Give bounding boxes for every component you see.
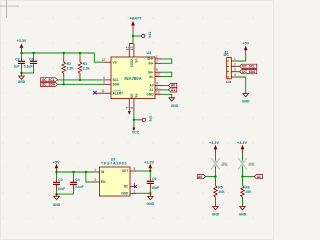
svg-text:C3: C3: [58, 178, 62, 182]
svg-text:+3.3V: +3.3V: [209, 141, 219, 145]
svg-text:10uF: 10uF: [151, 186, 159, 190]
svg-text:SH+: SH+: [147, 57, 153, 61]
wire J1 pin3 to label: [237, 71, 240, 73]
svg-text:2: 2: [156, 59, 158, 63]
svg-text:A1: A1: [149, 88, 153, 92]
jumper JP2 (DNP): [238, 158, 254, 170]
power +3.3V (JP1): [209, 141, 219, 153]
svg-text:GND: GND: [18, 80, 26, 84]
junction: [20, 72, 22, 74]
svg-text:4: 4: [234, 73, 236, 77]
svg-text:2.2K: 2.2K: [67, 66, 75, 70]
svg-text:INA780A: INA780A: [124, 76, 141, 81]
power VCC (down): [132, 120, 140, 135]
svg-text:5: 5: [103, 80, 105, 84]
svg-text:I2C_SDA: I2C_SDA: [42, 83, 56, 87]
junction: [63, 52, 65, 54]
svg-text:R6: R6: [245, 186, 249, 190]
capacitor C5 0.1uF: [24, 53, 37, 73]
wire VBUS: [132, 31, 134, 36]
svg-text:3: 3: [234, 68, 236, 72]
no-connect X on ALERT: [93, 91, 97, 95]
svg-text:I2C_SDA: I2C_SDA: [242, 70, 256, 74]
pin 4 J1: [231, 73, 236, 77]
capacitor C3 10uF: [53, 172, 65, 194]
pin 4 NC (U2, no-connect): [124, 183, 136, 189]
svg-text:VCC: VCC: [132, 131, 140, 135]
svg-text:SCL: SCL: [113, 78, 119, 82]
svg-text:VS: VS: [113, 60, 117, 64]
svg-text:JP1: JP1: [222, 162, 228, 166]
wire JP1 bottom: [215, 167, 217, 177]
svg-text:+3.3V: +3.3V: [144, 160, 154, 164]
pin 5 SDA (left): [103, 80, 120, 86]
ground GND (R6): [239, 207, 247, 217]
wire U2 GND to C6: [136, 192, 150, 194]
wire JP2 bottom: [242, 167, 244, 177]
wire J1 pin1 to +5V: [237, 55, 246, 61]
junction: [85, 171, 87, 173]
pin 1 SH+ (right): [147, 55, 161, 61]
svg-text:TP5: TP5: [148, 116, 152, 122]
wire pin13 to ground: [162, 94, 172, 98]
wire JP2 top: [242, 153, 244, 161]
pin 5 OUT (U2): [122, 167, 136, 173]
pin 3 J1: [231, 68, 236, 72]
global label A0: [169, 83, 177, 87]
junction: [79, 79, 81, 81]
svg-text:10K: 10K: [245, 190, 252, 194]
no-connect X on U2 pin 4: [134, 185, 137, 188]
svg-text:U5: U5: [147, 51, 152, 55]
junction: [149, 192, 151, 194]
svg-text:C6: C6: [152, 177, 156, 181]
pin 2 GND (U2): [121, 189, 136, 195]
wire SCL: [58, 79, 105, 81]
global label A0 (branch): [197, 175, 205, 179]
svg-text:10K: 10K: [218, 190, 225, 194]
svg-text:ALERT: ALERT: [113, 91, 124, 95]
ground GND (J1): [242, 94, 250, 104]
svg-text:GND: GND: [171, 104, 179, 108]
wire down to U5 top pins: [129, 36, 133, 44]
power +5V (J1): [242, 42, 249, 56]
junction: [79, 52, 81, 54]
pin 2 IN+ (right): [148, 59, 161, 65]
svg-text:GND: GND: [212, 212, 220, 216]
power +3.3V (top-left): [17, 39, 27, 53]
wire to TP5: [134, 119, 142, 121]
svg-text:2: 2: [234, 62, 236, 66]
svg-text:A0: A0: [171, 84, 175, 88]
svg-text:C4: C4: [75, 178, 79, 182]
pin 4 A0 (right): [149, 82, 161, 88]
wire to A0 label: [206, 176, 216, 178]
junction: [32, 52, 34, 54]
svg-text:EN: EN: [101, 180, 106, 184]
junction: [149, 170, 151, 172]
svg-text:A1: A1: [257, 175, 261, 179]
svg-text:GND: GND: [53, 203, 61, 207]
svg-text:2: 2: [134, 189, 136, 193]
global label A1 (branch): [254, 175, 262, 179]
pin 15 VS (top): [130, 44, 138, 63]
svg-text:SH-: SH-: [148, 70, 154, 74]
svg-text:A1: A1: [171, 88, 175, 92]
svg-text:10uF: 10uF: [57, 187, 65, 191]
ground GND (right of U5): [169, 98, 179, 108]
pin 13 GND (right): [146, 90, 161, 96]
pin 10 IN- (right): [149, 73, 161, 79]
global label I2C_SCL (right): [240, 64, 257, 68]
pin 16 VBUS (top): [125, 44, 133, 68]
svg-text:1: 1: [234, 57, 236, 61]
svg-text:10: 10: [156, 73, 160, 77]
junction: [55, 193, 57, 195]
junction: [241, 175, 243, 177]
capacitor C2 1uF: [13, 53, 25, 73]
svg-text:TPS7A2033: TPS7A2033: [101, 161, 127, 166]
resistor R2 2.2K: [62, 53, 74, 84]
ground GND (below C6): [147, 193, 155, 206]
pin 1 J1: [231, 57, 236, 61]
svg-text:4: 4: [156, 82, 158, 86]
svg-text:1uF: 1uF: [13, 65, 19, 69]
svg-text:2.2K: 2.2K: [83, 66, 91, 70]
svg-text:3: 3: [94, 178, 96, 182]
ground GND (R5): [212, 207, 220, 217]
pin 7 GND (bottom): [125, 94, 133, 115]
svg-text:13: 13: [156, 90, 160, 94]
svg-text:PA: PA: [134, 94, 138, 99]
capacitor C6 10uF: [147, 171, 159, 193]
wire bracket pins 9-10: [162, 72, 172, 76]
svg-text:VS: VS: [134, 59, 138, 63]
resistor R6 10K: [241, 177, 252, 207]
svg-text:0.1uF: 0.1uF: [75, 185, 84, 189]
wire to A1 label: [162, 89, 169, 91]
wire JP1 top: [215, 153, 217, 161]
power +BATT: [129, 16, 142, 31]
wire to A1 label: [243, 176, 255, 178]
jumper JP1 (DNP): [211, 158, 227, 170]
junction: [72, 171, 74, 173]
svg-text:1: 1: [156, 55, 158, 59]
wire to A0 label: [162, 85, 169, 87]
wire gnd rail caps: [22, 72, 34, 74]
wire J1 pin4 to ground: [237, 77, 246, 94]
wire to TP4: [133, 35, 141, 37]
wire OUT to +3.3V: [136, 170, 150, 172]
ground GND (below C3): [53, 194, 61, 207]
svg-text:11: 11: [101, 89, 105, 93]
svg-text:+BATT: +BATT: [129, 16, 142, 20]
svg-text:16: 16: [125, 46, 129, 50]
svg-text:R5: R5: [218, 186, 222, 190]
svg-text:GND: GND: [242, 99, 250, 103]
pin 3 A1 (right): [149, 86, 161, 92]
ground GND (below C2): [18, 73, 26, 84]
wire pin8 down: [133, 110, 135, 120]
capacitor C4 0.1uF: [70, 172, 84, 194]
connector J1 I2C: [224, 50, 232, 84]
svg-text:I2C_SCL: I2C_SCL: [242, 65, 255, 69]
global label I2C_SDA (right): [240, 70, 257, 74]
svg-text:GND: GND: [239, 212, 247, 216]
svg-text:15: 15: [130, 46, 134, 50]
wire bracket pins 1-2: [162, 59, 172, 63]
pin 8 PAD (bottom): [130, 94, 138, 110]
wire J1 pin2 to label: [237, 65, 240, 67]
junction: [63, 83, 65, 85]
svg-text:5: 5: [134, 167, 136, 171]
svg-text:1: 1: [94, 168, 96, 172]
crosshair origin marker: [0, 0, 19, 18]
svg-text:7: 7: [125, 107, 129, 109]
global label I2C_SDA (left): [41, 83, 58, 87]
svg-text:IN+: IN+: [148, 62, 153, 66]
IC U2 TPS7A2033 body: [100, 157, 131, 196]
pin 1 IN (U2): [94, 168, 105, 174]
wire SDA: [58, 83, 105, 85]
junction: [20, 52, 22, 54]
svg-text:12: 12: [101, 58, 105, 62]
svg-text:SDA: SDA: [113, 83, 120, 87]
pin 11 ALERT (left, no-connect): [96, 89, 124, 95]
junction: [55, 171, 57, 173]
IC U5 INA780A body: [111, 51, 155, 98]
wire +3.3V rail: [22, 53, 105, 62]
svg-text:GN: GN: [130, 94, 134, 99]
svg-text:R3: R3: [83, 62, 87, 66]
svg-text:+5V: +5V: [242, 42, 249, 46]
global label I2C_SCL (left): [41, 78, 58, 82]
svg-text:OUT: OUT: [122, 169, 129, 173]
wire +5V rail: [57, 171, 94, 173]
test point TP4: [142, 32, 152, 38]
svg-text:I2C_SCL: I2C_SCL: [42, 78, 55, 82]
svg-text:GND: GND: [146, 93, 154, 97]
svg-text:8: 8: [130, 107, 134, 109]
global label A1: [169, 88, 177, 92]
svg-text:C2: C2: [15, 58, 19, 62]
svg-text:R2: R2: [67, 62, 71, 66]
svg-text:+5V: +5V: [53, 160, 60, 164]
svg-text:A0: A0: [198, 175, 202, 179]
junction: [214, 175, 216, 177]
svg-text:GND: GND: [121, 192, 129, 196]
pin 2 J1: [231, 62, 236, 66]
svg-text:IN-: IN-: [149, 75, 153, 79]
power +3.3V (JP2): [237, 141, 247, 153]
svg-text:JP2: JP2: [249, 162, 255, 166]
svg-text:+3.3V: +3.3V: [237, 141, 247, 145]
svg-text:0.1uF: 0.1uF: [24, 65, 33, 69]
svg-text:VBUS: VBUS: [130, 59, 134, 68]
resistor R5 10K: [214, 177, 225, 207]
pin 3 EN (U2): [94, 178, 107, 184]
power +5V (U2): [53, 160, 60, 172]
junction: [133, 119, 135, 121]
pin 9 SH- (right): [148, 68, 162, 74]
junction: [132, 35, 134, 37]
wire gnd rail C3-C4: [57, 193, 74, 195]
svg-text:3: 3: [156, 86, 158, 90]
svg-text:TP4: TP4: [147, 32, 151, 38]
svg-text:A0: A0: [149, 84, 153, 88]
resistor R3 2.2K: [78, 53, 90, 80]
svg-text:1x04: 1x04: [226, 81, 232, 84]
svg-text:NC: NC: [124, 185, 129, 189]
svg-text:C5: C5: [29, 58, 33, 62]
wire EN branch: [86, 172, 94, 182]
svg-text:+3.3V: +3.3V: [17, 39, 27, 43]
test point TP5: [142, 116, 152, 122]
svg-text:9: 9: [156, 68, 158, 72]
svg-text:GND: GND: [147, 202, 155, 206]
power +3.3V (U2 out): [144, 160, 154, 171]
svg-text:6: 6: [103, 76, 105, 80]
pin 12 VS (left): [101, 58, 116, 64]
svg-text:I2C: I2C: [224, 53, 230, 57]
pin 6 SCL (left): [103, 76, 119, 82]
